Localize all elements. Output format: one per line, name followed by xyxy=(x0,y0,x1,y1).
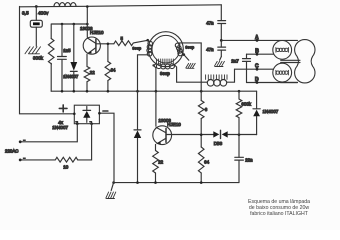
inductor L2 loops xyxy=(207,80,214,87)
wire bridge ac1 xyxy=(20,124,77,142)
wire top rail xyxy=(20,5,222,7)
ground G2 stub xyxy=(220,57,222,61)
diac DB3 xyxy=(213,131,219,137)
node AC terminal 1 xyxy=(19,140,22,143)
node bus24 x73.8 xyxy=(73,23,76,26)
wire bottom bus xyxy=(114,182,239,184)
svg-text:600k: 600k xyxy=(241,101,251,106)
wire 9esp left lead down xyxy=(154,64,156,91)
wire 300k bottom xyxy=(50,64,52,92)
capacitor C2 1n5 xyxy=(58,57,67,60)
resistor R10 10 xyxy=(20,157,77,162)
wire lamp B row xyxy=(247,53,274,55)
svg-text:400v: 400v xyxy=(38,11,49,17)
wire coil left lead xyxy=(201,81,207,83)
node midbus x62 xyxy=(61,90,64,93)
node bridge left terminal xyxy=(73,113,76,116)
wire Q2 collector column xyxy=(155,91,157,126)
resistor R8 64 xyxy=(198,147,204,173)
svg-text:~: ~ xyxy=(23,138,25,142)
svg-text:64: 64 xyxy=(111,67,116,72)
wire diac row right xyxy=(228,134,257,136)
ground G4 xyxy=(186,63,195,68)
svg-text:10: 10 xyxy=(63,165,69,170)
lamp tube link bottom xyxy=(281,82,298,84)
wire 47n column top xyxy=(220,5,222,41)
wire cap C0 column bottom xyxy=(35,27,37,46)
capacitor C0 3,5/400v xyxy=(30,20,42,27)
winding 9esp loops xyxy=(156,64,161,69)
node bottombus x155.5 xyxy=(154,181,157,184)
svg-text:3esp: 3esp xyxy=(132,45,141,50)
resistor R6 6 xyxy=(198,101,204,119)
wire Q1 collector column xyxy=(86,7,88,38)
wire Q1 base row xyxy=(96,43,114,45)
transistor Q2 13003 xyxy=(153,126,172,145)
svg-text:64: 64 xyxy=(204,159,210,164)
svg-text:D: D xyxy=(255,77,259,83)
node bottombus x113.6 xyxy=(112,181,115,184)
svg-text:300k: 300k xyxy=(33,55,44,60)
svg-text:HJE10: HJE10 xyxy=(90,30,104,35)
wire lamp D row xyxy=(247,82,298,84)
node midbus x107.9 xyxy=(107,90,110,93)
filament 2 xyxy=(275,70,277,75)
svg-text:6: 6 xyxy=(205,107,208,112)
node midbus x201.2 xyxy=(200,90,203,93)
node bridge ac2 terminal xyxy=(90,122,93,125)
diode D1 1N4007 xyxy=(70,62,77,71)
ground G3 stub xyxy=(111,183,113,191)
svg-text:3esp: 3esp xyxy=(185,45,194,50)
wire 9esp right lead down xyxy=(174,65,201,83)
node right 3esp bottom xyxy=(183,53,186,56)
node D xyxy=(256,81,259,84)
wire 22n column xyxy=(238,135,240,183)
node base row x201.2 xyxy=(200,133,203,136)
node top rail x87.3 xyxy=(86,5,89,8)
lamp filament circle 2 xyxy=(273,63,292,82)
ground G3 xyxy=(106,192,116,199)
resistor R9 600k xyxy=(236,91,242,135)
winding left 3esp xyxy=(148,41,153,46)
wire cap C0 column top xyxy=(35,7,37,21)
wire right 3esp ground stub xyxy=(184,55,189,61)
node bus24 x87.3 xyxy=(86,23,89,26)
wire R3 64 column xyxy=(107,44,109,91)
svg-text:Esquema de uma lâmpada: Esquema de uma lâmpada xyxy=(248,199,310,205)
resistor R3 64 xyxy=(105,62,111,81)
svg-text:fabrico italiano ITALIGHT: fabrico italiano ITALIGHT xyxy=(250,211,309,217)
wire R6 column top xyxy=(200,43,202,183)
node bridge ac1 terminal xyxy=(76,122,79,125)
svg-text:5: 5 xyxy=(121,36,124,41)
transformer T1 toroid core xyxy=(148,32,183,67)
node midbus x239 xyxy=(238,90,241,93)
node A xyxy=(256,39,259,42)
svg-text:2n7: 2n7 xyxy=(231,58,239,63)
svg-text:22: 22 xyxy=(158,160,163,165)
wire 47n column bottom xyxy=(220,40,222,56)
node bottombus x201.2 xyxy=(200,181,203,184)
wire D3 column xyxy=(256,91,258,135)
svg-text:1N4007: 1N4007 xyxy=(52,125,68,130)
node bus24 x62 xyxy=(61,23,64,26)
node midbus x155.9 xyxy=(155,90,158,93)
svg-text:9esp: 9esp xyxy=(160,71,170,76)
svg-text:1n5: 1n5 xyxy=(63,48,71,53)
wire mid bus xyxy=(51,90,256,92)
lamp tube link mid lines xyxy=(281,60,300,62)
ground G2 xyxy=(214,61,224,66)
node midbus x73.8 xyxy=(73,90,76,93)
capacitor C6 2n7 xyxy=(243,59,251,62)
winding 9esp ticks xyxy=(157,59,174,64)
label bridge minus xyxy=(103,110,108,112)
lamp filament circle 1 xyxy=(273,41,292,60)
label bridge plus xyxy=(59,105,67,112)
svg-text:47n: 47n xyxy=(206,20,214,25)
node 9esp left xyxy=(152,64,154,66)
wire Q2 base row xyxy=(166,134,213,136)
wire bridge ac2 xyxy=(78,124,92,160)
node AC terminal 2 xyxy=(19,159,22,162)
svg-text:47n: 47n xyxy=(206,47,214,52)
svg-text:HJE10: HJE10 xyxy=(167,122,181,127)
inductor L1 input choke xyxy=(54,3,76,7)
node diac row x239 xyxy=(238,133,241,136)
node 47n junction xyxy=(220,39,223,42)
wire right 3esp top xyxy=(179,42,202,44)
diode D3 1N4007 xyxy=(253,108,260,110)
wire C row to coil xyxy=(227,69,235,82)
wire 1n5 column xyxy=(61,24,63,91)
transistor Q1 13003 xyxy=(83,37,100,54)
svg-text:C: C xyxy=(255,64,259,70)
node R4-winding junction xyxy=(146,39,149,42)
capacitor C3 47n top xyxy=(218,21,226,24)
resistor R7 22 xyxy=(153,151,159,173)
svg-text:1N4007: 1N4007 xyxy=(263,109,279,114)
node midbus x87 xyxy=(86,90,89,93)
filament 1 xyxy=(275,48,277,53)
svg-text:A: A xyxy=(255,35,259,41)
ground G1 xyxy=(25,47,41,54)
wire lamp C row xyxy=(235,68,274,70)
capacitor C5 22n xyxy=(235,157,244,160)
svg-text:B: B xyxy=(255,48,259,54)
bridge diode symbol xyxy=(86,107,88,123)
svg-text:220AC: 220AC xyxy=(5,149,18,154)
wire Q1 emitter column xyxy=(86,54,88,91)
svg-text:22: 22 xyxy=(90,70,95,75)
wire lamp A row xyxy=(221,39,297,41)
node B xyxy=(256,53,259,56)
wire Q2 emitter column xyxy=(155,144,157,182)
svg-text:~: ~ xyxy=(23,157,25,161)
resistor R4 5 xyxy=(114,40,148,45)
node C xyxy=(256,68,259,71)
bridge rectifier B1 box xyxy=(74,105,99,124)
svg-text:de baixo consumo de 20w: de baixo consumo de 20w xyxy=(249,205,310,211)
node bottombus x137.5 xyxy=(136,181,139,184)
capacitor C4 47n bottom xyxy=(218,47,226,50)
winding right 3esp xyxy=(175,43,180,48)
svg-text:DB3: DB3 xyxy=(214,141,223,146)
diode D2 xyxy=(134,129,141,131)
node top-left junction xyxy=(35,5,38,8)
caption text xyxy=(248,199,310,217)
wire left rail xyxy=(20,7,75,114)
wire left 3esp bottom xyxy=(138,55,149,91)
wire D1 column xyxy=(73,24,75,91)
svg-text:22n: 22n xyxy=(245,158,253,163)
wire negative rail column xyxy=(99,113,114,182)
wire bus B+ y24 xyxy=(51,24,87,39)
node bridge right terminal xyxy=(98,112,101,115)
node base row x107.9 xyxy=(107,43,110,46)
svg-text:3,5: 3,5 xyxy=(22,11,29,17)
inductor L2 output choke ticks xyxy=(206,75,227,80)
node midbus x137.5 xyxy=(136,90,139,93)
resistor R2 22 xyxy=(84,67,90,82)
wire D2 column xyxy=(137,91,139,182)
resistor R1 300k xyxy=(48,39,54,64)
svg-text:1N4007: 1N4007 xyxy=(63,74,79,79)
wire 2n7 column xyxy=(246,54,248,82)
lamp tube dumbbell xyxy=(295,40,315,83)
